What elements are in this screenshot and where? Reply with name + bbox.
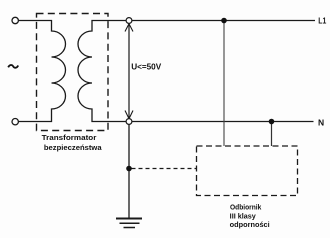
wire: L1 line + transformer TR1 secondary winding + wire: N line [78,21,315,122]
svg-text:III klasy: III klasy [230,211,256,220]
terminal T1 (top left) [12,17,18,23]
svg-text:Transformator: Transformator [42,133,97,142]
node circle secondary bottom [126,119,132,125]
svg-text:L1: L1 [318,15,326,25]
wire: dashed connector from earth node to load box [132,168,197,170]
dimension line U<=50V [128,24,130,120]
svg-text:U<=50V: U<=50V [131,63,162,72]
wire: primary top lead + transformer TR1 primary winding + wire: primary bottom lead [18,21,65,122]
svg-text:odporności: odporności [230,220,270,229]
node circle secondary top [126,18,132,24]
transformer TR1 boundary box (dashed) [37,14,109,131]
svg-text:bezpieczeństwa: bezpieczeństwa [44,143,103,152]
junction dot on N [269,119,275,125]
wire: N junction down to load box [271,122,273,147]
arrowhead up [125,24,133,32]
arrowhead down [125,111,133,119]
junction dot on earth wire [126,166,132,172]
load box (dashed) Odbiornik [197,146,298,196]
wire: secondary bottom node down to ground [128,122,130,219]
wire: L1 junction down to load box [223,21,225,147]
junction dot on L1 [221,18,227,24]
svg-text:N: N [318,118,324,128]
ground [116,219,142,228]
AC source symbol ~ [8,65,18,68]
terminal T2 (bottom left) [12,119,18,125]
